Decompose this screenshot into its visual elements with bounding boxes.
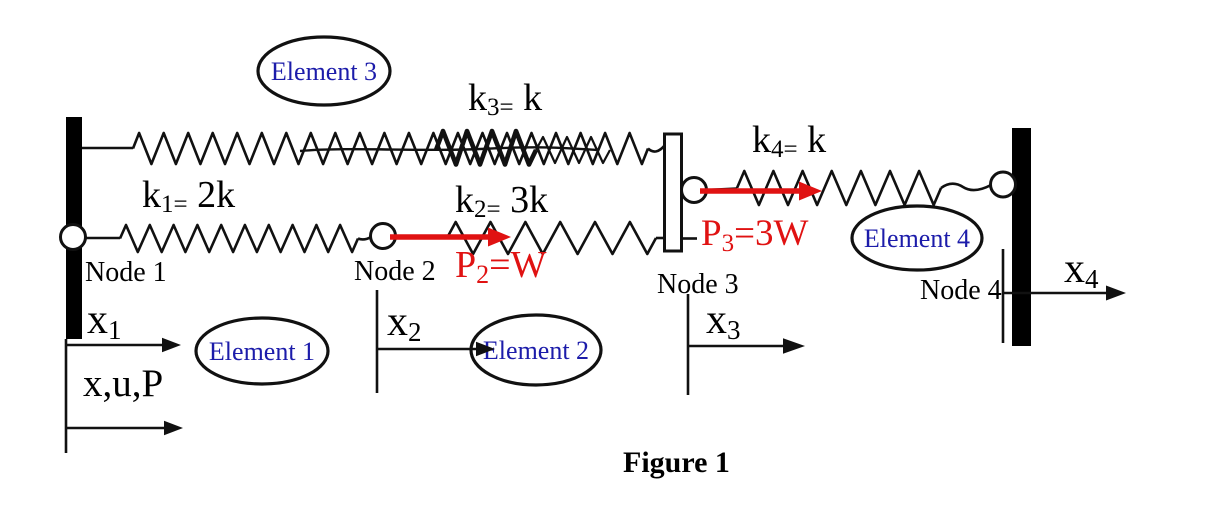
- axis x4: [1003, 249, 1126, 343]
- spring k3 overlap line: [300, 147, 597, 151]
- axis x2: [377, 290, 495, 393]
- svg-text:Element 1: Element 1: [209, 337, 315, 366]
- svg-text:P2=W: P2=W: [455, 244, 547, 289]
- node 2: [371, 224, 396, 249]
- wall right support: [1012, 128, 1031, 346]
- svg-text:Figure 1: Figure 1: [623, 446, 730, 479]
- axis x1 arrow: [66, 338, 181, 352]
- svg-text:k4= k: k4= k: [752, 119, 826, 163]
- svg-text:Node 3: Node 3: [657, 269, 739, 300]
- element 3 ellipse: [258, 37, 390, 105]
- svg-text:Element 2: Element 2: [483, 336, 589, 365]
- axis x3: [688, 294, 805, 395]
- wire lead k2 into node 3 bar: [656, 237, 664, 240]
- spring k2: [447, 222, 656, 254]
- wire stub right of node 3 bar: [683, 237, 697, 240]
- spring k4: [737, 171, 941, 205]
- axis x,u,P arrow: [66, 421, 183, 435]
- svg-text:k3= k: k3= k: [468, 77, 542, 121]
- wire lead k1 into node 2: [358, 237, 371, 239]
- svg-text:Element 4: Element 4: [864, 224, 970, 253]
- svg-text:x1: x1: [87, 297, 122, 345]
- wire lead k3 into node 3 bar: [648, 145, 665, 152]
- svg-text:P3=3W: P3=3W: [701, 213, 808, 257]
- element 1 ellipse: [196, 318, 328, 384]
- wall left support: [66, 117, 82, 339]
- node 3 bar: [665, 134, 682, 251]
- svg-text:Element 3: Element 3: [271, 57, 377, 86]
- node 3: [682, 178, 707, 203]
- spring k1: [120, 225, 358, 252]
- svg-text:x2: x2: [387, 299, 422, 347]
- axis x1 baseline: [65, 339, 68, 453]
- svg-text:x,u,P: x,u,P: [83, 362, 163, 405]
- wire lead k4 from node 3: [706, 189, 737, 191]
- svg-text:k2= 3k: k2= 3k: [455, 179, 548, 223]
- wire lead k3 from left wall: [82, 147, 133, 150]
- svg-text:Node 2: Node 2: [354, 256, 436, 287]
- force arrow P3: [700, 182, 822, 201]
- wire lead k2 from node 2: [394, 237, 447, 240]
- svg-text:k1= 2k: k1= 2k: [142, 174, 235, 218]
- node 4: [991, 172, 1016, 197]
- svg-text:x4: x4: [1064, 246, 1099, 294]
- svg-text:Node 4: Node 4: [920, 275, 1002, 306]
- spring k3 thin overlap coil: [536, 137, 610, 163]
- element 2 ellipse: [471, 315, 601, 385]
- wire lead k4 into node 4: [941, 184, 991, 190]
- node 1: [61, 225, 86, 250]
- svg-text:Node 1: Node 1: [85, 257, 167, 288]
- wire lead k1 from node 1: [84, 237, 120, 240]
- spring k3: [133, 133, 648, 164]
- svg-text:x3: x3: [706, 297, 741, 345]
- force arrow P2: [390, 228, 511, 247]
- element 4 ellipse: [852, 206, 982, 270]
- spring k3 bold overlap coil: [436, 131, 536, 165]
